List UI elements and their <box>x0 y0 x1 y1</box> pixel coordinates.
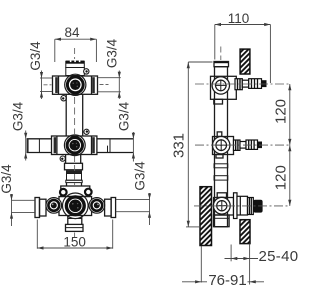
pipe between top and middle valve <box>66 94 83 136</box>
svg-text:120: 120 <box>273 165 290 190</box>
centerline below bottom valve <box>74 233 76 242</box>
G3/4 mid-right dimension <box>132 132 135 162</box>
top valve cap serrated <box>66 60 85 67</box>
top wall section hatched <box>240 49 250 74</box>
bottom valve top block <box>61 186 90 197</box>
bottom valve left shoulder ear <box>60 189 67 196</box>
pipe bands between middle and bottom (side view) <box>214 164 228 180</box>
bottom valve main body <box>59 197 92 216</box>
bottom valve side circle <box>213 197 230 214</box>
bottom valve side top tab <box>217 193 226 198</box>
76-91 dimension <box>182 246 264 283</box>
svg-text:G3/4: G3/4 <box>11 101 26 131</box>
bottom valve bottom cap <box>66 224 84 231</box>
side view body cap <box>214 62 229 67</box>
middle valve port circle <box>64 135 85 156</box>
middle valve top-right ear <box>84 129 89 134</box>
G3/4 upper-right dimension <box>98 71 121 100</box>
bottom valve left check-valve boss <box>46 198 62 214</box>
svg-text:110: 110 <box>228 11 250 26</box>
svg-text:76-91: 76-91 <box>208 272 246 289</box>
top valve axis centerline <box>195 83 290 85</box>
middle valve body <box>52 136 97 155</box>
dimension 84 dim line <box>55 38 97 62</box>
body vertical centerline top <box>220 47 222 61</box>
svg-text:G3/4: G3/4 <box>28 41 43 71</box>
dimension 150 <box>37 220 112 250</box>
25-40 dimension <box>225 244 259 285</box>
top valve main body <box>53 76 98 94</box>
bottom valve axis centerline <box>194 205 290 207</box>
bottom wall left hatched <box>200 187 212 246</box>
svg-text:84: 84 <box>64 25 80 40</box>
svg-text:G3/4: G3/4 <box>133 161 148 191</box>
bottom valve right port flange <box>105 198 116 218</box>
bottom valve left port flange <box>35 198 46 218</box>
bottom valve cartridge <box>234 193 263 219</box>
331 dimension <box>186 62 213 227</box>
top valve neck <box>66 68 85 76</box>
centerline vertical left view <box>74 48 76 59</box>
bottom wall right hatched <box>240 220 250 244</box>
bottom valve side block <box>214 198 234 216</box>
bottom valve bottom outlet neck <box>68 216 82 225</box>
svg-text:150: 150 <box>63 235 86 250</box>
middle valve side circle <box>213 137 230 154</box>
top valve right ear <box>84 69 89 74</box>
middle valve spindle <box>234 140 263 150</box>
top valve side block <box>211 76 237 104</box>
pipe between middle and bottom valve <box>65 155 83 187</box>
svg-text:G3/4: G3/4 <box>105 38 120 68</box>
svg-text:120: 120 <box>273 99 290 124</box>
svg-text:G3/4: G3/4 <box>117 101 132 131</box>
svg-text:25-40: 25-40 <box>259 248 299 265</box>
top valve side circle <box>212 77 229 94</box>
svg-text:G3/4: G3/4 <box>0 164 14 194</box>
middle valve side block <box>213 137 234 159</box>
bottom valve right shoulder ear <box>85 189 92 196</box>
middle valve side top tab <box>217 132 222 137</box>
120 dimension upper <box>288 84 291 206</box>
top valve port circle <box>65 74 86 95</box>
G3/4 bottom-right dimension <box>116 193 151 225</box>
G3/4 mid-left dimension <box>24 131 27 161</box>
G3/4 upper-left dimension <box>40 71 52 100</box>
top valve bottom-left ear <box>61 96 66 101</box>
bottom valve right check-valve boss <box>89 198 105 214</box>
bottom valve lower block (side view) <box>214 215 230 227</box>
middle valve axis centerline <box>195 144 290 146</box>
middle valve right pipe <box>97 139 133 153</box>
svg-text:331: 331 <box>171 133 188 158</box>
middle valve bottom-left ear <box>60 156 65 161</box>
bottom valve center thermostat circle <box>63 193 89 219</box>
top valve spindle <box>235 79 267 90</box>
G3/4 bottom-left dimension <box>10 194 35 226</box>
dimension 110 <box>215 23 271 83</box>
middle valve left pipe <box>27 139 52 153</box>
side view body pipe <box>215 67 228 227</box>
